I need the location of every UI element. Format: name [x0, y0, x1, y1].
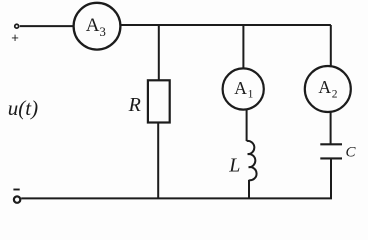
label + (plus sign of terminal): [11, 30, 19, 45]
terminal + (top-left input terminal): [15, 24, 19, 28]
label A3: [86, 15, 106, 39]
wire from ammeter A1 to inductor L: [246, 109, 248, 141]
svg-text:3: 3: [99, 24, 106, 39]
svg-text:A: A: [86, 15, 100, 36]
label - (minus sign of terminal): [13, 189, 19, 191]
ammeter A2 circle: [305, 66, 351, 112]
terminal - (bottom-left input terminal): [14, 196, 20, 202]
svg-text:+: +: [11, 30, 19, 45]
ammeter A1 circle: [223, 68, 264, 109]
wire bottom bus: [21, 197, 332, 199]
svg-text:A: A: [234, 78, 247, 98]
svg-text:A: A: [318, 77, 331, 97]
wire top bus from A3 to right corner: [120, 24, 331, 26]
svg-text:L: L: [228, 154, 240, 176]
svg-text:1: 1: [248, 89, 254, 101]
svg-text:u(t): u(t): [8, 96, 38, 120]
capacitor C bottom plate: [320, 157, 342, 159]
wire from top-right corner down to ammeter A2: [330, 25, 332, 66]
svg-text:R: R: [128, 94, 141, 116]
wire from resistor R to bottom bus: [157, 122, 159, 198]
svg-text:2: 2: [332, 89, 338, 101]
wire from top bus down to ammeter A1: [242, 25, 244, 69]
inductor L coil: [247, 141, 257, 180]
label A1: [234, 78, 253, 101]
wire from inductor L to bottom bus: [248, 180, 250, 199]
capacitor C top plate: [320, 143, 342, 145]
wire from capacitor C to bottom bus: [330, 158, 332, 198]
ammeter A3 circle: [74, 3, 121, 50]
svg-text:C: C: [346, 145, 357, 161]
wire from top bus down to resistor R: [158, 25, 160, 81]
label A2: [318, 77, 337, 100]
wire from + terminal to ammeter A3: [20, 25, 74, 27]
resistor R body: [148, 80, 170, 122]
wire from ammeter A2 to capacitor C: [330, 112, 332, 145]
